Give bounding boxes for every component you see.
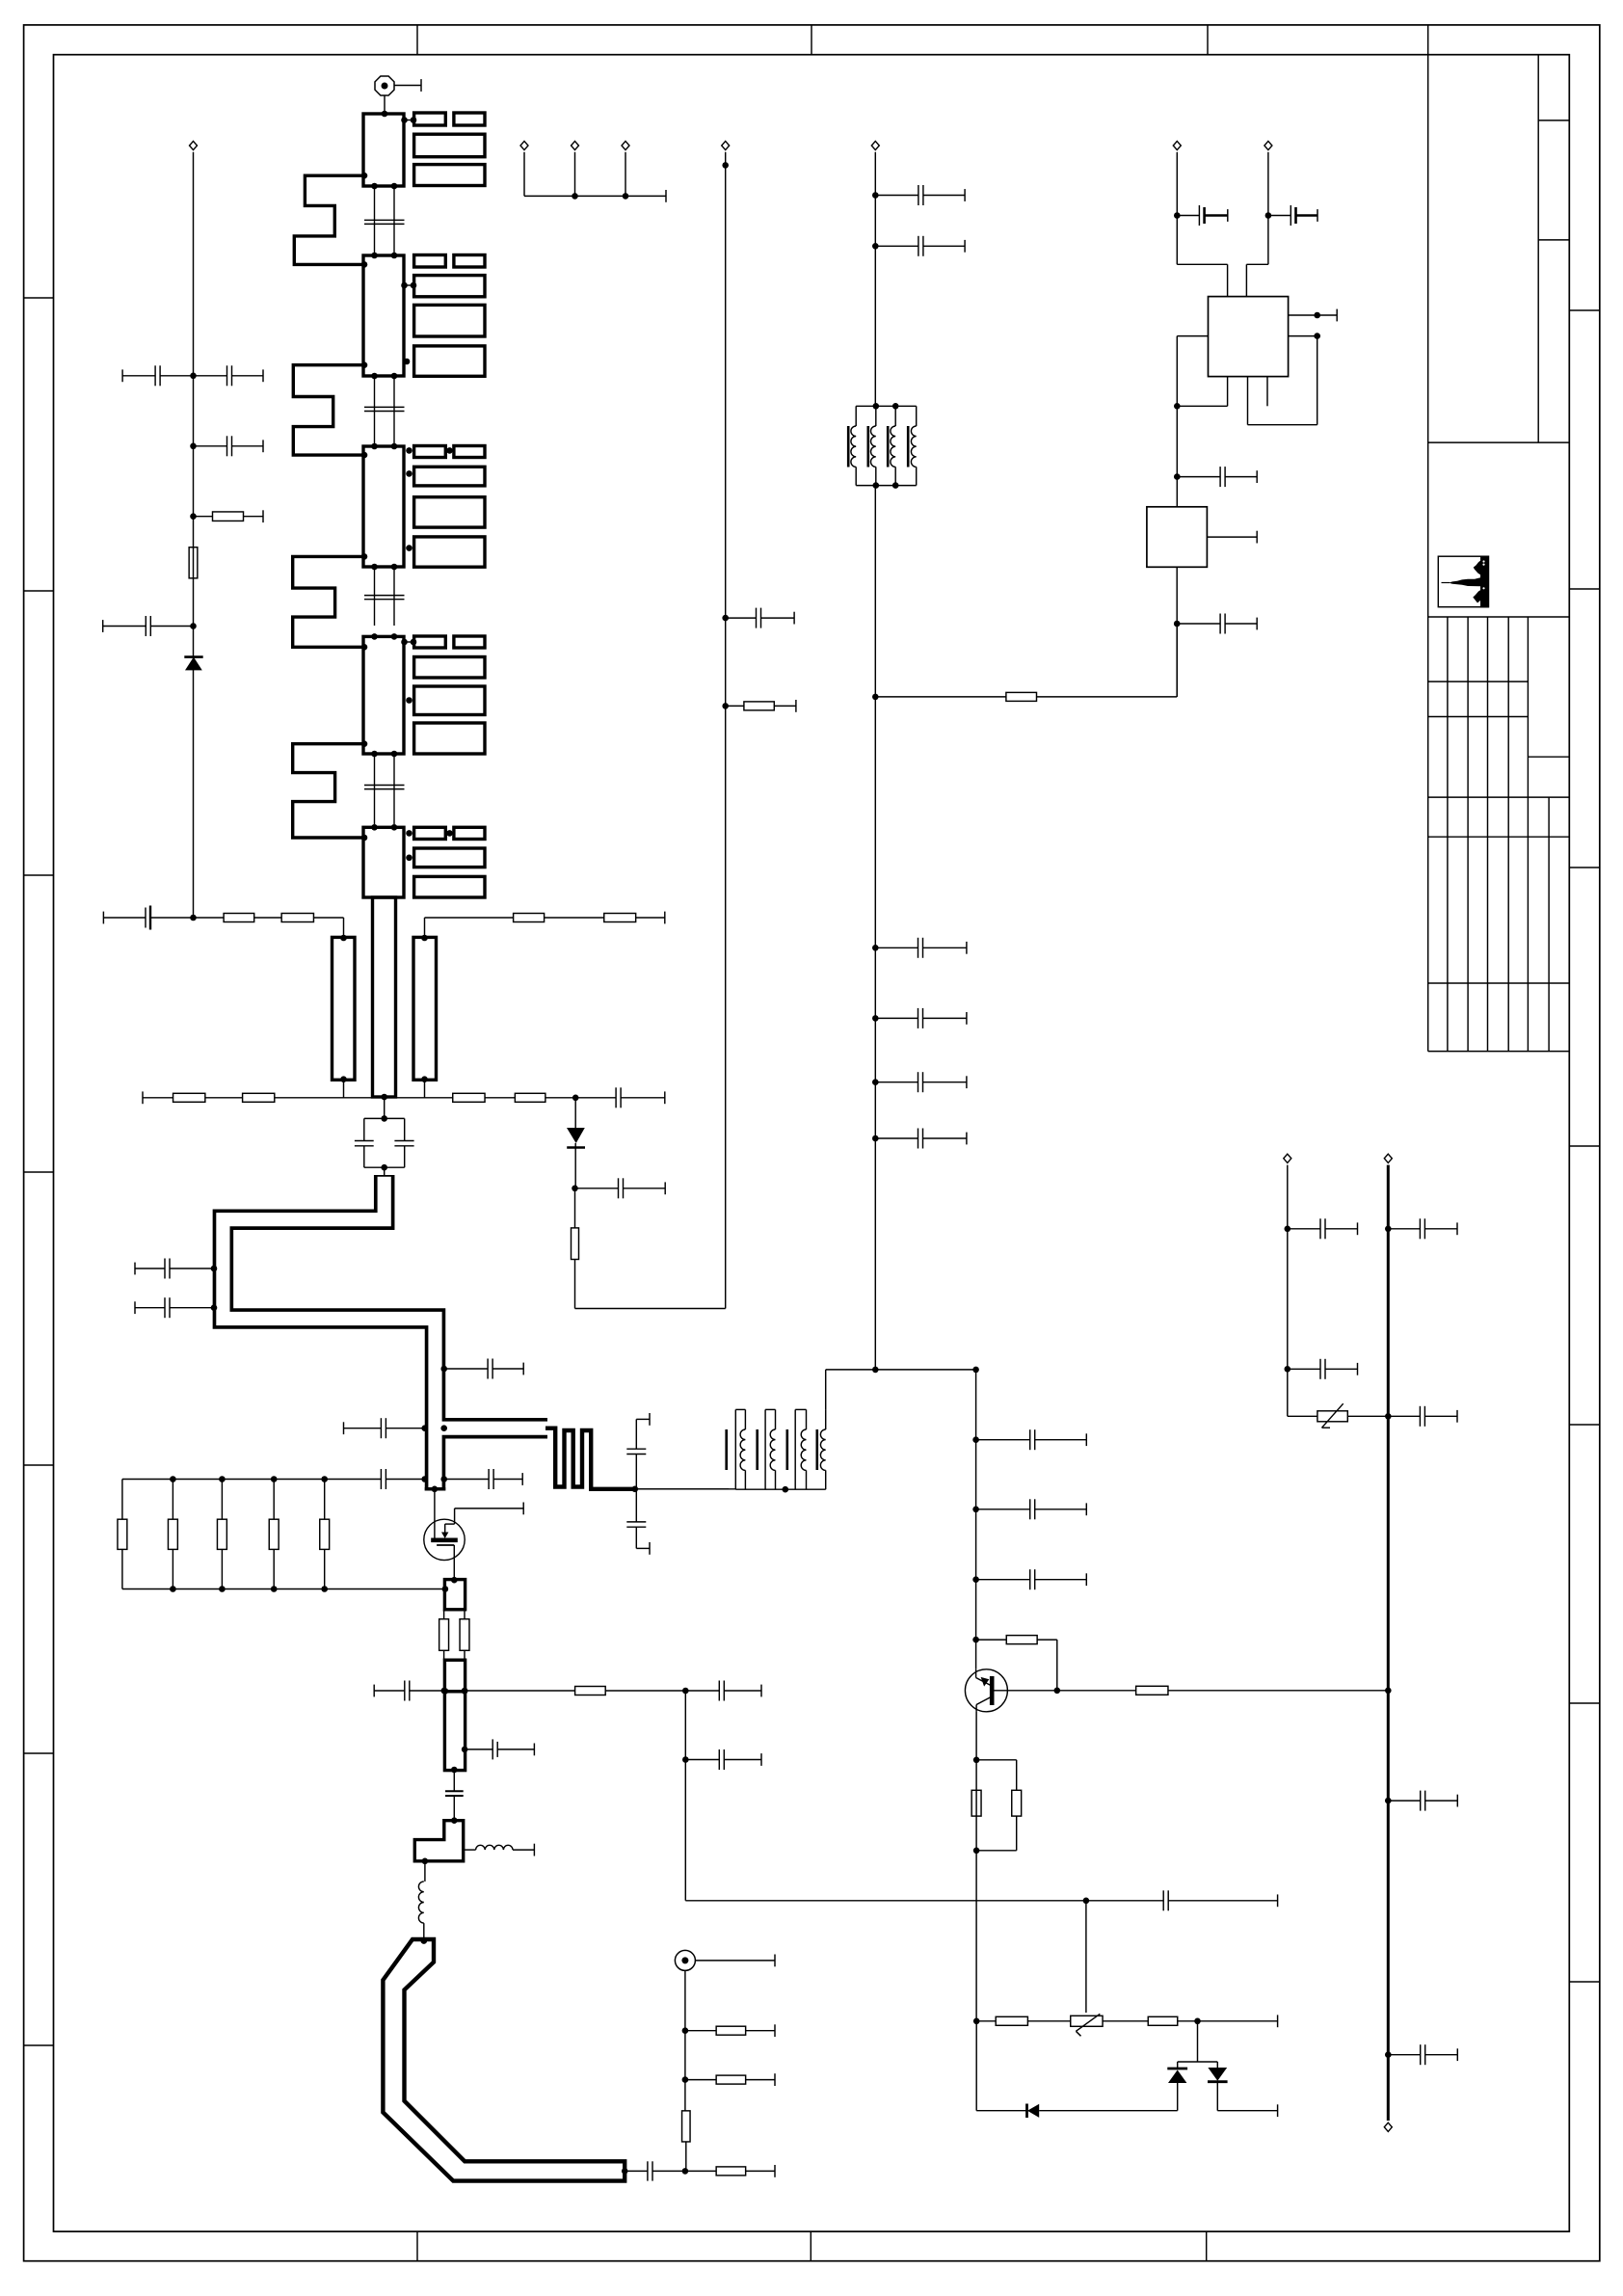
diode D3 (up) (1177, 2062, 1179, 2069)
capacitor C28 (466, 1749, 493, 1750)
microstrip L-piece TL8 (414, 1821, 463, 1861)
node bank bottom 4 (271, 1586, 278, 1592)
wire feedback bottom (575, 1308, 726, 1310)
wire emitter ground run (975, 2021, 977, 2111)
microstrip stub ST-A (quarter-wave) (333, 937, 356, 1080)
node bank bottom 2 (170, 1586, 176, 1592)
T2 core bar at x=753.7 (725, 1429, 728, 1470)
wire bias left end tick (102, 912, 104, 924)
capacitor C13 (left) (150, 626, 193, 627)
node T1 bottom pins (873, 482, 880, 489)
capacitor C20 (170, 1268, 214, 1269)
stub wide TL1-2 (414, 134, 485, 157)
table col 5 (1527, 617, 1529, 1052)
capacitor C26 (shunt up) (635, 1455, 637, 1489)
capacitor C16 (left branch) (355, 1140, 374, 1142)
wire lower bias left tick (142, 1091, 144, 1104)
node P9 cap b (1285, 1366, 1291, 1373)
node serpentine out (632, 1486, 639, 1493)
node diode feed (1194, 2018, 1201, 2025)
microstrip stub ST-B (413, 937, 437, 1080)
Q1 source lead (437, 1544, 454, 1546)
microstrip meander M2 (293, 365, 363, 455)
node TL6 cap tap 2 (211, 1304, 218, 1311)
node TL2 bottom pins (371, 373, 378, 380)
node drain rail cap 2 (972, 1507, 979, 1513)
node drain rail cap 1 (972, 1436, 979, 1443)
wire bank bottom bus (122, 1589, 445, 1590)
resistor R22 (443, 1610, 445, 1619)
resistor R30 (1136, 1686, 1168, 1695)
T2 winding 2 (770, 1429, 775, 1470)
node T1 top pins (873, 403, 880, 410)
wire P4 drop (574, 152, 576, 197)
capacitor C23 (left of TL6) (421, 1425, 428, 1431)
node TL5 stub links (406, 830, 412, 837)
node rail cap 5 (872, 1079, 879, 1085)
table row 5 (1428, 836, 1570, 838)
wire T2 to drain rail (825, 1370, 827, 1410)
wire coupling pair 2a (374, 376, 376, 446)
microstrip stub ST-D (444, 1660, 465, 1692)
border zone tick right 7 (1569, 1981, 1600, 1983)
resistor R28 (1006, 692, 1037, 701)
T1 winding at x=929.2 (894, 406, 896, 426)
node TL1 top pins (382, 111, 388, 118)
diode D5 (left) (1025, 2104, 1028, 2119)
resistor R31 (in rail) (971, 1790, 981, 1816)
resistor RB4 (273, 1480, 275, 1520)
table row 3 (1528, 756, 1569, 758)
node P10 cap a (1385, 1226, 1392, 1233)
capacitor C15 (575, 1097, 616, 1099)
node ST-E top wire (441, 1688, 448, 1695)
resistor R32 (parallel) (976, 1759, 1017, 1761)
capacitor C48 (976, 1508, 1030, 1510)
capacitor C27 (shunt down) (635, 1489, 637, 1522)
node pot feed (1083, 1898, 1090, 1905)
wire stub ST-A bottom link (343, 1080, 345, 1098)
node L-piece top (451, 1817, 458, 1824)
Q2 emitter (976, 1696, 992, 1705)
capacitor C17 (right branch) (394, 1140, 413, 1142)
microstrip output line TL9 (hockey stick) (383, 1939, 625, 2181)
wire coupling pair 1a (374, 186, 376, 255)
wire J2 right tick (695, 1960, 775, 1962)
capacitor gap C2g (364, 406, 405, 408)
inductor L2 (vertical) (424, 1861, 426, 1882)
node U1 net b (1174, 473, 1181, 480)
potentiometer RP1 (1071, 2016, 1103, 2026)
border zone tick left 3 (24, 874, 54, 876)
wire P8 drop (1267, 152, 1269, 264)
wire emitter rail (975, 1712, 977, 2021)
terminal P9 diamond (1284, 1154, 1291, 1162)
wire center rail upper (874, 152, 876, 407)
capacitor C19 (726, 617, 757, 619)
stub small TL3-1b (454, 446, 485, 458)
wire feedback riser x=752.7 (725, 152, 727, 1309)
T2 core bar at x=847.8 (815, 1429, 818, 1470)
terminal P5 diamond (622, 141, 629, 149)
terminal P7 diamond (1173, 141, 1181, 149)
node TL4 mid right (406, 697, 412, 704)
stub wide TL2-4 (414, 346, 485, 376)
resistor R21 (726, 705, 744, 707)
node emitter pair bottom (973, 1848, 980, 1855)
stub wide TL1-3 (414, 165, 485, 186)
capacitor C25 (444, 1479, 489, 1481)
wire coupling pair 4a (374, 754, 376, 824)
T2 winding 3 (801, 1429, 806, 1470)
T1 winding at x=888.2 (855, 406, 857, 426)
microstrip section TL3 (363, 446, 404, 567)
node emitter pair top (973, 1757, 980, 1764)
resistor R13 (281, 914, 313, 922)
node J2 rail a (682, 2027, 689, 2034)
diode D1 (zener in rail) (184, 655, 202, 658)
resistor R18 (425, 1097, 453, 1099)
wire coupling pair 2b (393, 376, 395, 446)
microstrip meander M3 (293, 556, 363, 647)
Q2 base wire (995, 1690, 1057, 1692)
resistor R26 (series) (682, 2111, 691, 2142)
title block left edge (1427, 25, 1429, 1052)
table row 6 (1428, 982, 1570, 984)
border zone tick left 6 (24, 1752, 54, 1754)
node J2 rail b (682, 2076, 689, 2083)
capacitor C24 (421, 1476, 428, 1482)
border zone tick right 2 (1569, 588, 1600, 590)
node feedback tap (572, 1095, 579, 1102)
node TL9 output end (622, 2168, 628, 2175)
connector J1 (RF input) (375, 76, 394, 95)
node bus P5 (623, 193, 629, 200)
capacitor C43 (1388, 1415, 1420, 1417)
node control a (682, 1688, 689, 1695)
wire J1 down to TL1 (384, 96, 386, 115)
node feedback res tap (722, 703, 729, 709)
node rail cap b (872, 243, 879, 250)
U2 right pin (1207, 536, 1257, 538)
stub wide TL5-3 (414, 876, 485, 897)
node TL2 lower right (404, 359, 411, 365)
table row 2 (1428, 716, 1529, 718)
node TL4 bottom pins (371, 751, 378, 758)
capacitor C41 (1288, 1228, 1320, 1230)
resistor R10 (194, 516, 213, 518)
table row 4 (1428, 796, 1570, 798)
border zone tick bottom 2 (810, 2231, 811, 2261)
wire P7 drop (1176, 152, 1178, 264)
resistor R35 (1148, 2016, 1178, 2025)
border zone tick top 2 (811, 25, 812, 55)
capacitor C37 (bold) (1177, 215, 1199, 217)
resistor R23 (464, 1610, 466, 1619)
node P10 cap b (1385, 1798, 1392, 1804)
wire base to R30 (1057, 1690, 1136, 1692)
capacitor C33 (875, 947, 918, 948)
wire coupling pair 3b (393, 567, 395, 626)
table col 6 (1548, 797, 1550, 1052)
resistor RB2 (172, 1480, 173, 1520)
node TL6 cap tap 1 (211, 1266, 218, 1272)
capacitor C44 (1388, 1228, 1420, 1230)
node TL5 top pins (371, 824, 378, 831)
stub wide TL2-3 (414, 305, 485, 336)
transformer T2 bottom rail (635, 1488, 736, 1490)
border zone tick right 6 (1569, 1702, 1600, 1704)
table col 4 (1507, 617, 1509, 1052)
wire U2 bottom (1176, 567, 1178, 697)
stub small TL2-1b (454, 255, 485, 268)
node rail res tap (872, 694, 879, 701)
resistor R11 (series in rail) (189, 547, 198, 578)
wire stub ST-B bottom link (424, 1080, 426, 1098)
microstrip section TL1 (363, 114, 404, 186)
title block section divider (1428, 441, 1570, 443)
resistor R34 (996, 2016, 1027, 2025)
node ST-E right cap tap (462, 1747, 468, 1753)
resistor R25 (685, 2079, 716, 2081)
node TL3 stub links (406, 447, 412, 454)
node drain rail cap 3 (972, 1576, 979, 1583)
wire top control y=1754 (373, 1685, 375, 1697)
Q2 collector (975, 1669, 977, 1678)
microstrip stub ST-E (444, 1692, 465, 1771)
revision table outline (1428, 616, 1570, 618)
capacitor gap C1g (364, 219, 405, 221)
wire P8 to IC1 pin (1246, 263, 1268, 265)
node bank top 4 (271, 1476, 278, 1482)
resistor R17 (243, 1093, 275, 1102)
wire coupling pair 3a (374, 567, 376, 626)
node bank bottom 5 (321, 1586, 328, 1592)
U1 right pin 1 (1289, 314, 1338, 316)
capacitor C35 (875, 1081, 918, 1083)
node TL4 top pins (371, 633, 378, 640)
wire J2 rail down (684, 1970, 686, 2110)
T1 winding at x=950.7 (916, 406, 918, 426)
table col 1 (1447, 617, 1449, 1052)
node emitter bottom corner (973, 2018, 980, 2025)
node left rail A (190, 373, 197, 380)
node TL3 top pins (371, 443, 378, 450)
capacitor C11 (right of rail) (194, 375, 227, 377)
wire lower bias mid (344, 1097, 425, 1099)
U1 bottom pin stub (1266, 377, 1268, 407)
Q1 gate line (432, 1486, 439, 1493)
wire diode T-bar (1197, 2021, 1199, 2062)
terminal P11 diamond (1384, 2122, 1392, 2131)
border zone tick right 4 (1569, 1145, 1600, 1147)
capacitor C36 (875, 1137, 918, 1139)
T1 core bar at x=942.2 (907, 426, 910, 467)
stub wide TL4-3 (414, 686, 485, 715)
T1 core bar at x=921.2 (887, 426, 890, 467)
microstrip meander M4 (293, 744, 363, 838)
stub wide TL4-2 (414, 657, 485, 679)
node control b (682, 1756, 689, 1763)
title block row line 1 (1538, 120, 1569, 121)
wire bank left edge (121, 1480, 123, 1520)
capacitor C22 (444, 1368, 488, 1370)
microstrip section TL4 (363, 636, 404, 754)
U1 bottom pin 2 (1227, 377, 1229, 407)
wire P3 drop (523, 152, 525, 197)
terminal P1 diamond (190, 141, 198, 149)
wire drain rail (975, 1370, 977, 1669)
capacitor C12 (194, 445, 227, 447)
node ST-E top pins (442, 1688, 449, 1695)
logo box (1438, 556, 1488, 607)
T2 top link 1 (735, 1408, 745, 1410)
capacitor C30 (series output) (625, 2170, 648, 2172)
node TL6 right y1534 (440, 1476, 447, 1482)
resistor R14 (514, 914, 545, 922)
T1 core bar at x=900.8 (866, 426, 869, 467)
T1 winding at x=908.8 (875, 406, 877, 426)
node drain rail top (872, 1367, 879, 1374)
node left rail to bias wire (190, 915, 197, 921)
stub wide TL3-3 (414, 497, 485, 527)
node bank top 5 (321, 1476, 328, 1482)
stub wide TL4-4 (414, 723, 485, 754)
wire serpentine to T2 (635, 1488, 729, 1490)
border zone tick bottom 1 (416, 2231, 418, 2261)
inductor L1 (horizontal) (464, 1849, 476, 1851)
stub wide TL2-2 (414, 276, 485, 297)
T2 core bar at x=816.8 (785, 1429, 788, 1470)
border zone tick top 1 (416, 25, 418, 55)
transformer T1 top rail (856, 405, 917, 407)
node left rail B (190, 443, 197, 450)
stub small TL1-1b (454, 113, 485, 125)
node rail cap 4 (872, 1015, 879, 1022)
capacitor C46 (1388, 2054, 1420, 2056)
stub wide TL3-4 (414, 537, 485, 567)
node rail cap 3 (872, 945, 879, 951)
wire right bias segment (424, 918, 426, 937)
wire TL2 stub link (404, 284, 414, 286)
T2 winding 1 (740, 1429, 745, 1470)
microstrip section TL2 (363, 255, 404, 376)
capacitor C10 (left of rail) (160, 375, 193, 377)
node ST-E bottom (451, 1767, 458, 1774)
stub wide TL3-2 (414, 467, 485, 486)
border zone tick left 7 (24, 2044, 54, 2046)
IC U2 (1147, 507, 1208, 568)
transistor Q1 (MOSFET) (424, 1519, 465, 1560)
resistor R29 (976, 1639, 1007, 1641)
capacitor C38 (bold) (1268, 215, 1290, 217)
wire P5 drop (625, 152, 626, 197)
capacitor C29 (series) (453, 1771, 455, 1792)
diode D2 (574, 1098, 576, 1128)
U1 left pin (1177, 335, 1208, 337)
TL6 bottom end cap (425, 1487, 446, 1490)
node varistor out (1385, 1413, 1392, 1420)
capacitor C47 (976, 1439, 1030, 1441)
T2 top link 3 (795, 1408, 806, 1410)
node D2 cathode (572, 1186, 578, 1192)
border zone tick left 1 (24, 297, 54, 299)
capacitor C39 (1177, 476, 1220, 478)
wire header bus (524, 195, 666, 197)
border zone tick right 5 (1569, 1424, 1600, 1426)
node bank top 3 (219, 1476, 226, 1482)
stub small TL4-1a (414, 636, 446, 648)
wire J1 to stub tick (395, 85, 422, 87)
node TL1 bottom pins (371, 183, 378, 190)
node R30 to P10 rail (1385, 1688, 1392, 1695)
capacitor C45 (1388, 1800, 1420, 1802)
resistor R15 (604, 914, 636, 922)
resistor RB5 (324, 1480, 326, 1520)
wire P9 bottom (1288, 1415, 1317, 1417)
node cap box bottom (381, 1164, 387, 1171)
Q2 base bar (990, 1676, 995, 1705)
stub small TL3-1a (414, 446, 446, 458)
resistor R27 (685, 2170, 716, 2172)
wire left rail (193, 152, 195, 918)
capacitor pair box (364, 1117, 405, 1119)
node TL2 top pins (371, 253, 378, 259)
transistor Q2 (BJT) (965, 1669, 1007, 1712)
title block column divider (1537, 55, 1539, 442)
table row 1 (1428, 681, 1529, 682)
stub small TL4-1b (454, 636, 485, 648)
stub small TL2-1a (414, 255, 446, 268)
T1 core bar at x=880.2 (847, 426, 850, 467)
node U1 net a (1174, 403, 1181, 410)
capacitor C18 (575, 1188, 619, 1189)
capacitor C34 (875, 1017, 918, 1019)
microstrip meander M1 (294, 175, 363, 264)
node TL6 right edge y1482 (440, 1425, 447, 1431)
terminal P3 diamond (520, 141, 528, 149)
logo cathedral silhouette (1449, 556, 1489, 608)
wire coupling pair 4b (393, 754, 395, 824)
resistor R33 (575, 1687, 606, 1695)
wire control bus y=1971.8 (684, 1691, 686, 1901)
table col 3 (1487, 617, 1489, 1052)
wire bank top bus (122, 1479, 325, 1481)
capacitor C51 (685, 1759, 719, 1761)
capacitor C52 (685, 1690, 719, 1692)
capacitor C32 (875, 245, 918, 247)
U1 right pin 2 loop (1289, 335, 1317, 337)
wire P9 rail (1287, 1165, 1289, 1417)
node base res tap (972, 1637, 979, 1643)
node hockey stick top (421, 1937, 428, 1944)
capacitor C49 (976, 1579, 1030, 1581)
node L-piece bottom (422, 1858, 429, 1865)
transformer T1 bottom rail (856, 485, 917, 487)
wire center rail lower (874, 486, 876, 1370)
microstrip main line TL6 (hollow thick meander) (223, 1175, 547, 1491)
node bank bottom 3 (219, 1586, 226, 1592)
table col 2 (1467, 617, 1469, 1052)
stub small TL1-1a (414, 113, 446, 125)
node feedback cap tap (722, 615, 729, 622)
wire P10 rail (bold) (1387, 1165, 1390, 2121)
stub small TL5-1b (454, 827, 485, 839)
border zone tick right 1 (1569, 309, 1600, 311)
resistor R16 (143, 1097, 173, 1099)
node P7 cap (1174, 212, 1181, 219)
wire TL5 strip to cap box (384, 1097, 386, 1118)
